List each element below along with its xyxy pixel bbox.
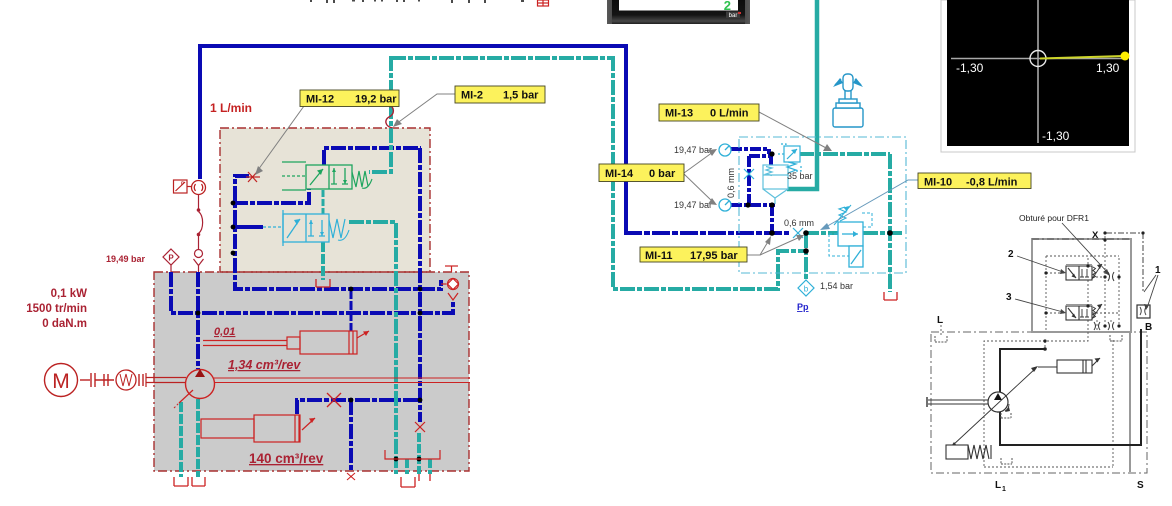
callout lines MI-11 (747, 240, 769, 255)
inset callout Obture to orifice (1062, 223, 1108, 273)
wire: teal main drop from above (787, 0, 817, 189)
svg-text:19,47 bar: 19,47 bar (674, 145, 712, 155)
wire: teal link green valve to cyan valve (322, 190, 325, 214)
wire: teal tank stubs at drain manifold (396, 433, 430, 474)
pressure compensator valve (829, 205, 872, 267)
scope axes (951, 0, 1126, 143)
wire: blue long vertical through boxes (418, 148, 422, 422)
swash axis lines (214, 378, 470, 383)
label MI-13 (659, 104, 759, 121)
inset pump shaft (928, 399, 988, 401)
svg-text:2: 2 (1008, 249, 1014, 260)
sensor display icon (174, 180, 192, 193)
svg-text:1,54 bar: 1,54 bar (820, 281, 853, 291)
inset swash linkage diagonal (952, 368, 1036, 446)
plugged port x (347, 473, 355, 480)
wire: teal return top horizontal (391, 56, 613, 60)
wire: blue branch to green valve bottom port (233, 188, 309, 203)
coupling bars (80, 373, 143, 387)
beige box red dash-dot border (220, 128, 430, 272)
inset upper control box gray border (1032, 239, 1131, 332)
svg-text:-0,8 L/min: -0,8 L/min (966, 177, 1018, 189)
inset component 1 plug (1137, 305, 1150, 318)
inset junction dots (1043, 238, 1120, 350)
svg-text:1: 1 (1155, 265, 1161, 276)
wire: blue left vertical to transducer (198, 44, 202, 179)
inset dotted pilot network (984, 236, 1119, 467)
XY joystick scope window (cut off at top) (941, 0, 1135, 152)
inset tank below pump (1001, 413, 1011, 418)
wire: teal long return vertical (613, 56, 806, 289)
inset orifice symbols (1094, 272, 1114, 330)
wire: blue stub to cyan valve pilot (233, 225, 263, 229)
callout line MI-2 (396, 94, 455, 124)
svg-text:3: 3 (1006, 292, 1012, 303)
gauge diamond P (163, 249, 179, 272)
wire: blue gauge sub-circuit (731, 149, 775, 233)
pump shaft (146, 373, 186, 387)
main pump circle (186, 370, 215, 399)
main pump unit background box (gray) (154, 272, 469, 471)
red hook measurement point MI-2 (386, 104, 394, 128)
red X measurement point MI-12 (246, 172, 260, 182)
svg-text:17,95 bar: 17,95 bar (690, 250, 738, 262)
inlet check symbol circle-Y (194, 250, 204, 273)
svg-text:1 L/min: 1 L/min (210, 101, 252, 115)
wire: teal to compensator inlet (804, 231, 838, 235)
wire: blue main horizontal to valve group (624, 231, 789, 235)
svg-text:0,1 kW: 0,1 kW (51, 288, 88, 300)
wire: blue supply top horizontal (200, 44, 626, 48)
label MI-14 (599, 164, 684, 182)
pressure gauge top (719, 144, 731, 156)
drain manifold bracket (385, 450, 440, 459)
svg-text:MI-13: MI-13 (665, 108, 693, 120)
orifice cross red on servo line (327, 393, 341, 407)
orifice cross on teal line (793, 228, 803, 238)
svg-text:X: X (1092, 230, 1099, 241)
wire: blue green-valve top feed (324, 148, 421, 165)
svg-text:Pp: Pp (797, 302, 809, 312)
wire: blue P-line lower manifold (171, 272, 453, 313)
svg-text:S: S (1137, 480, 1144, 491)
valve group dash-dot cyan border (739, 137, 906, 273)
callout line MI-12 (258, 106, 304, 170)
red tank under drain (884, 292, 897, 300)
small servo cylinder (203, 331, 369, 354)
inset tank below valve section (1110, 335, 1122, 341)
label MI-10 (918, 173, 1031, 189)
inset tank above L1 (1001, 458, 1012, 464)
cyan proportional valve (263, 210, 349, 246)
pressure gauge bottom (719, 199, 731, 211)
svg-text:19,47 bar: 19,47 bar (674, 200, 712, 210)
wire: teal drain vertical to tank (888, 154, 892, 292)
electric motor M (45, 364, 78, 397)
callout line MI-10 (824, 180, 918, 228)
svg-text:B: B (1145, 322, 1152, 333)
inset valve 3 (1066, 304, 1102, 320)
small red icon top (538, 0, 549, 6)
svg-text:MI-10: MI-10 (924, 177, 952, 189)
svg-text:P: P (168, 254, 174, 263)
svg-text:0 L/min: 0 L/min (710, 108, 749, 120)
scope trace yellow (1040, 56, 1124, 59)
relief valve 35 bar (778, 144, 801, 173)
svg-text:0,01: 0,01 (214, 326, 235, 338)
svg-text:1,5 bar: 1,5 bar (503, 90, 539, 102)
inset gray divider vertical (1129, 332, 1131, 472)
wire: teal cyan-valve outlet long drop (349, 222, 396, 459)
svg-text:0,6 mm: 0,6 mm (784, 218, 814, 228)
gray box red dash-dot border (154, 272, 469, 471)
wire: teal pilot drop to gauge diamond (804, 233, 808, 282)
inset control cylinder (1038, 358, 1100, 373)
tank symbol inside gray box (316, 279, 330, 287)
label MI-12 (300, 90, 399, 107)
wire: blue drain vertical plugged (349, 400, 353, 472)
svg-text:140 cm³/rev: 140 cm³/rev (249, 451, 324, 466)
svg-text:b: b (804, 285, 809, 294)
scope center circle (1030, 51, 1046, 67)
label MI-2 (455, 86, 545, 103)
svg-text:MI-11: MI-11 (645, 250, 673, 262)
svg-text:35 bar: 35 bar (787, 171, 813, 181)
wire: teal case drains below pump (181, 399, 198, 477)
tank symbols below gray box (174, 474, 430, 487)
pump sub-assembly background box (beige) (220, 128, 430, 272)
callout lines MI-14 (684, 152, 713, 173)
anti-cavitation check valve right (441, 266, 459, 300)
green proportional valve (282, 162, 372, 190)
wire: blue right vertical drop (624, 44, 628, 233)
inset pump (988, 392, 1008, 412)
inset outer dash-dot border (931, 332, 1147, 473)
pilot filter cartridge (763, 165, 788, 204)
motor drive texts (26, 288, 87, 330)
pressure transducer gauge circle (192, 181, 206, 195)
svg-text:19,49 bar: 19,49 bar (106, 254, 146, 264)
orifice cross red on drain (415, 422, 425, 432)
gauge diamond b (798, 280, 814, 296)
svg-text:bar: bar (729, 13, 738, 19)
svg-text:MI-2: MI-2 (461, 90, 483, 102)
wire: teal valve-group top run (799, 152, 890, 156)
cut-off text remnants top edge (310, 0, 524, 3)
svg-text:1,34 cm³/rev: 1,34 cm³/rev (228, 358, 301, 372)
wire: blue servo control line (297, 400, 420, 414)
svg-text:L: L (937, 315, 943, 326)
orifice cross on blue branch (744, 169, 754, 179)
svg-text:-1,30: -1,30 (1042, 129, 1070, 143)
svg-text:MI-14: MI-14 (605, 168, 634, 180)
svg-text:1: 1 (1002, 486, 1006, 493)
coupling circle W (116, 370, 136, 390)
svg-text:-1,30: -1,30 (956, 61, 984, 75)
svg-text:Obturé pour DFR1: Obturé pour DFR1 (1019, 213, 1089, 223)
big servo cylinder (201, 415, 315, 442)
wire: blue beige-box left manifold (235, 176, 441, 289)
wire: blue pump outlet vertical (196, 272, 200, 369)
svg-text:0 bar: 0 bar (649, 168, 676, 180)
svg-text:0,6 mm: 0,6 mm (726, 168, 736, 198)
wire: teal vertical to green valve (369, 56, 391, 172)
inset bias spring actuator (946, 445, 991, 459)
svg-text:L: L (995, 480, 1001, 491)
scope labels (956, 61, 1120, 143)
svg-text:M: M (52, 370, 70, 393)
svg-text:1,30: 1,30 (1096, 61, 1120, 75)
inset valve 2 (1066, 264, 1102, 280)
joystick symbol (833, 74, 863, 127)
svg-text:19,2 bar: 19,2 bar (355, 94, 397, 106)
wire: teal compensator outlet (863, 231, 904, 235)
svg-text:2: 2 (724, 0, 731, 13)
svg-text:MI-12: MI-12 (306, 94, 334, 106)
svg-text:1500 tr/min: 1500 tr/min (26, 303, 87, 315)
inset main pressure line thick (1000, 329, 1141, 445)
flexible hose link (199, 195, 203, 250)
wire: blue drop to small servo cylinder (350, 290, 353, 331)
callout line MI-13 (759, 112, 828, 149)
wire: teal cyan-valve drain to tank (321, 242, 325, 280)
label MI-11 (640, 247, 747, 262)
svg-text:0 daN.m: 0 daN.m (42, 318, 87, 330)
